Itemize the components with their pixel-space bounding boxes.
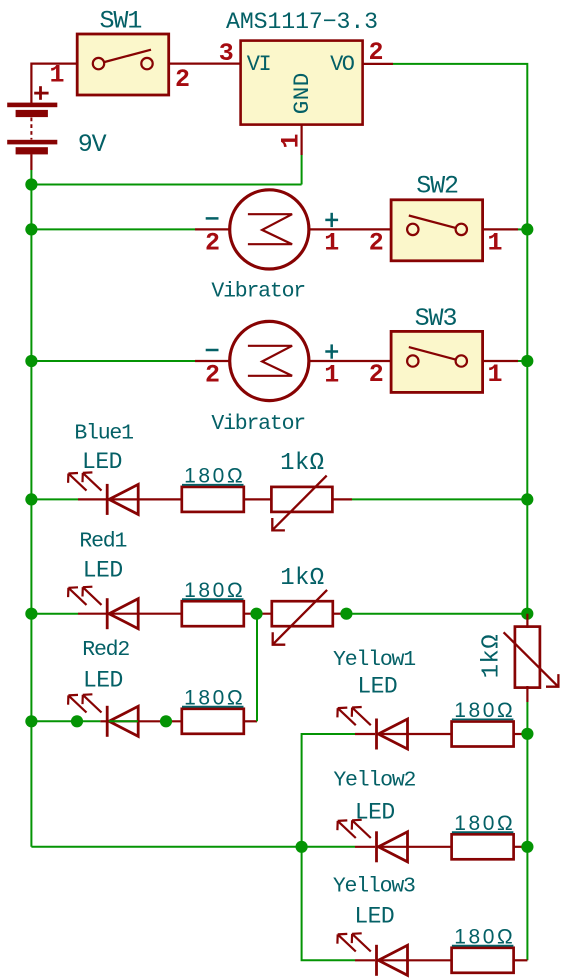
wire M2 pin1 to SW3 <box>309 360 392 362</box>
wire Yellow feed column <box>302 734 355 960</box>
wire R to pot Blue1 <box>244 498 272 500</box>
vibrator M2 <box>230 321 309 400</box>
wire rail to LED Red2 <box>31 720 100 722</box>
pin stub SW3 pin1 to rail <box>483 360 518 362</box>
svg-text:Blue1: Blue1 <box>74 422 133 446</box>
svg-text:LED: LED <box>355 800 395 826</box>
wire rail to vibrator M1 <box>31 228 195 230</box>
LED Red1 <box>68 587 138 630</box>
junction after pot Red1 <box>340 608 352 620</box>
svg-text:1kΩ: 1kΩ <box>280 450 324 477</box>
vibrator M1 <box>230 190 309 269</box>
junction right rail Red1 <box>521 608 533 620</box>
LED Yellow1 <box>337 707 407 750</box>
junction Yellow2 feed <box>296 841 308 853</box>
potentiometer 1k vertical <box>504 627 559 688</box>
svg-text:Red1: Red1 <box>79 529 126 553</box>
svg-text:2: 2 <box>205 229 220 258</box>
resistor 180 ohm Red1 <box>182 601 244 626</box>
switch SW3 <box>391 331 483 392</box>
switch SW2 <box>391 200 483 261</box>
svg-text:9V: 9V <box>78 130 107 159</box>
pin stub M1 pin2 <box>195 228 231 230</box>
pin stub LED Yellow3 cathode <box>355 959 375 961</box>
wire pot Red1 to rail <box>342 613 527 615</box>
potentiometer 1k Blue1 <box>271 476 332 531</box>
wire LED Blue1 to R1 <box>138 498 182 500</box>
svg-text:SW1: SW1 <box>100 7 142 36</box>
junction left rail vibrator M2 <box>25 355 37 367</box>
wire SW3 to rail <box>518 360 527 362</box>
pin stub SW2 pin1 to rail <box>483 228 518 230</box>
junction left rail vibrator M1 <box>25 223 37 235</box>
wire LED Yellow2 to R <box>408 846 453 848</box>
pin stub U1 GND <box>301 125 303 155</box>
svg-text:LED: LED <box>82 449 122 475</box>
junction right rail SW3 <box>521 355 533 367</box>
pin stub pot vertical bottom <box>526 686 528 702</box>
wire Red2 branch up <box>256 614 258 722</box>
wire pot Blue1 to rail <box>352 498 527 500</box>
pin stub LED Red1 cathode <box>78 613 106 615</box>
minus sign M2 <box>206 349 219 352</box>
pin stub pot Red1 right <box>333 613 342 615</box>
svg-text:SW3: SW3 <box>415 304 457 333</box>
wire bottom left long <box>31 846 301 848</box>
wire R Red2 to corner <box>244 720 257 722</box>
svg-text:Yellow3: Yellow3 <box>333 874 415 898</box>
svg-text:2: 2 <box>369 360 384 389</box>
wire rail to vibrator M2 <box>31 360 195 362</box>
svg-text:1kΩ: 1kΩ <box>280 565 324 592</box>
svg-text:Vibrator: Vibrator <box>211 280 305 304</box>
wire SW2 to rail <box>518 228 527 230</box>
wire LED Red2 to R <box>138 720 182 722</box>
junction right rail Yellow1 <box>521 728 533 740</box>
resistor 180 ohm Yellow1 <box>452 722 514 747</box>
resistor 180 ohm Yellow3 <box>452 948 514 973</box>
svg-text:1: 1 <box>49 60 64 89</box>
plus sign M1 <box>325 213 338 227</box>
junction battery minus <box>25 178 37 190</box>
battery 9V <box>7 86 57 170</box>
wire rail to LED Red1 <box>31 613 78 615</box>
junction Red2 cathode <box>71 715 83 727</box>
junction left rail Blue1 <box>25 493 37 505</box>
svg-text:VI: VI <box>247 52 271 77</box>
pin stub M2 pin2 <box>195 360 231 362</box>
svg-text:LED: LED <box>83 667 123 693</box>
wire Yellow2 feed <box>302 846 355 848</box>
pin stub pot Blue1 right <box>332 498 352 500</box>
LED Yellow2 <box>337 820 407 863</box>
svg-text:2: 2 <box>368 38 383 67</box>
pin stub LED Red2 cathode <box>100 720 106 722</box>
svg-text:1kΩ: 1kΩ <box>479 634 506 678</box>
pin stub LED Yellow2 cathode <box>355 846 375 848</box>
svg-text:SW2: SW2 <box>416 172 458 201</box>
pin stub LED Yellow1 cathode <box>355 733 375 735</box>
wire R to pot Red1 <box>244 613 272 615</box>
resistor 180 ohm Blue1 <box>182 487 244 512</box>
svg-text:3: 3 <box>219 39 234 68</box>
junction Red1 to Red2 branch <box>250 608 262 620</box>
pin stub LED Blue1 cathode <box>78 498 106 500</box>
svg-text:1: 1 <box>324 229 339 258</box>
svg-text:GND: GND <box>289 72 315 114</box>
resistor 180 ohm Red2 <box>182 709 244 734</box>
svg-text:1: 1 <box>324 360 339 389</box>
svg-text:Red2: Red2 <box>82 638 129 662</box>
svg-text:LED: LED <box>83 557 123 583</box>
svg-text:1: 1 <box>487 360 502 389</box>
wire VO net to right rail <box>393 64 527 614</box>
junction right rail SW2 <box>521 223 533 235</box>
wire M1 pin1 to SW2 <box>309 228 392 230</box>
plus sign M2 <box>325 344 338 358</box>
svg-text:VO: VO <box>330 52 355 77</box>
junction Red2 anode <box>160 715 172 727</box>
potentiometer 1k Red1 <box>272 590 333 645</box>
svg-text:2: 2 <box>369 229 384 258</box>
svg-text:2: 2 <box>175 65 190 94</box>
junction right rail Blue1 <box>521 493 533 505</box>
LED Blue1 <box>68 472 138 515</box>
wire LED Yellow3 to R <box>408 959 453 961</box>
resistor 180 ohm Yellow2 <box>452 834 514 859</box>
pin stub U1 VO <box>363 63 393 65</box>
pin stub pot vertical top <box>526 614 528 628</box>
svg-text:Vibrator: Vibrator <box>211 412 305 436</box>
switch SW1 <box>77 34 169 95</box>
wire battery minus row <box>31 184 301 186</box>
svg-text:Yellow2: Yellow2 <box>333 769 415 793</box>
wire SW1 pin2 to regulator VI <box>169 62 241 64</box>
svg-text:1: 1 <box>487 229 502 258</box>
pin stub R Yellow3 to rail <box>514 959 528 961</box>
LED Red2 <box>68 694 138 737</box>
svg-text:LED: LED <box>354 903 394 929</box>
LED Yellow3 <box>337 933 407 976</box>
wire overlay through LED Red2 <box>109 720 138 722</box>
pin stub R Yellow1 to rail <box>514 733 528 735</box>
svg-text:Yellow1: Yellow1 <box>333 648 415 672</box>
svg-text:2: 2 <box>205 360 220 389</box>
junction left rail Red2 <box>25 715 37 727</box>
wire LED Yellow1 to R <box>408 733 453 735</box>
svg-text:LED: LED <box>357 673 397 699</box>
wire rail to LED Blue1 <box>31 498 78 500</box>
wire GND pin down <box>301 155 303 185</box>
minus sign M1 <box>206 217 219 220</box>
svg-text:AMS1117−3.3: AMS1117−3.3 <box>226 9 378 35</box>
junction right rail Yellow2 <box>521 841 533 853</box>
wire LED Red1 to R <box>138 613 182 615</box>
regulator U1 AMS1117-3.3 <box>241 41 363 125</box>
wire battery plus to SW1 pin 1 <box>31 64 76 104</box>
junction left rail Red1 <box>25 608 37 620</box>
wire right rail bottom <box>526 734 528 961</box>
wire pot vertical to Yellow1 junction <box>526 702 528 734</box>
pin stub R Yellow2 to rail <box>514 846 528 848</box>
wire left rail <box>30 170 32 847</box>
